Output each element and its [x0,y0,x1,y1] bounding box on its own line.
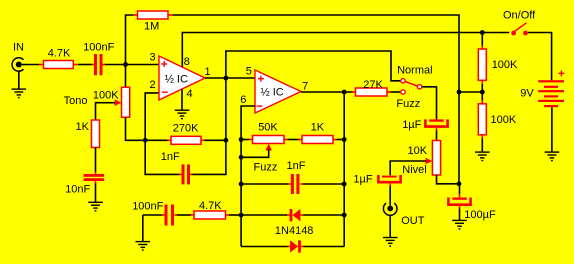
svg-text:8: 8 [184,56,190,68]
svg-text:Tono: Tono [64,95,88,107]
node V+ rail / divider top [480,30,485,35]
node feedback A (pin2/270K/1nF) [143,138,148,143]
capacitor 1nF (feedback) [241,160,344,194]
wire On/Off to battery [528,33,552,81]
svg-text:50K: 50K [258,121,278,133]
svg-text:27K: 27K [363,79,383,91]
wire 10K bottom to bias node [437,175,460,184]
wire 1nF loop left [145,140,179,174]
svg-text:IN: IN [13,42,24,54]
resistor 270K [145,123,226,145]
wire 1uF to OUT jack [389,186,391,206]
node 1K right [342,137,347,142]
wire 4.7K to C 100nF [78,64,92,66]
wire output U1 down to 270K [225,78,227,140]
wire 1K to 10nF [95,148,97,175]
svg-text:100K: 100K [491,114,517,126]
diode D1 1N4148 (cathode left) [241,209,344,237]
op-amp U1 (1/2 IC) [150,51,211,100]
resistor 27K [352,79,391,96]
node op-amp U1 output [224,76,229,81]
node 1nF right [342,182,347,187]
svg-text:On/Off: On/Off [503,10,536,22]
svg-text:10K: 10K [408,145,428,157]
resistor 4.7K (input) [39,48,78,69]
node 270K right [224,138,229,143]
svg-text:Normal: Normal [397,64,432,76]
capacitor 100uF [448,184,496,221]
svg-text:1µF: 1µF [402,119,421,131]
svg-text:OUT: OUT [401,215,425,227]
svg-text:4: 4 [187,88,193,100]
svg-text:2: 2 [150,79,156,91]
resistor 4.7K (bottom) [177,200,241,219]
wire 10K wiper to 1uF out [390,161,426,175]
wire pin 4 to ground [181,89,183,110]
svg-text:4.7K: 4.7K [48,48,71,60]
svg-text:5: 5 [246,66,252,78]
wire 1nF loop right [193,140,226,174]
svg-text:100K: 100K [492,59,518,71]
wire IN jack to ground [18,71,20,89]
node bias rail bottom [457,181,462,186]
potentiometer 50K Fuzz [241,121,287,173]
svg-text:3: 3 [150,51,156,63]
svg-text:270K: 270K [173,123,199,135]
svg-text:½ IC: ½ IC [165,73,188,85]
wire 100nF to op-amp pin 3 [105,64,160,66]
node input junction [123,62,128,67]
wire node A up to pin 2 [145,93,159,140]
svg-text:100µF: 100µF [464,209,496,221]
node 50K left [239,137,244,142]
svg-text:7: 7 [302,81,308,93]
node 1nF left [239,182,244,187]
svg-text:1µF: 1µF [353,173,372,185]
node bias rail mid [457,90,462,95]
potentiometer 100K Tono [64,87,130,117]
svg-text:Fuzz: Fuzz [396,98,420,110]
wire OUT jack to ground [389,215,391,237]
capacitor 100nF (bottom) [132,201,177,226]
capacitor 1uF (output coupling) [353,173,400,186]
svg-text:½ IC: ½ IC [261,86,284,98]
wire 1M to bias rail corner [173,15,460,93]
resistor 100K (lower divider) [478,92,517,152]
svg-text:1nF: 1nF [161,151,180,163]
ground (input jack) [12,89,27,98]
svg-text:1K: 1K [76,121,90,133]
svg-text:1K: 1K [311,122,325,134]
wire Tono pot bottom to feedback node [126,117,147,140]
battery 9V [520,70,564,107]
node op-amp U2 output [342,90,347,95]
wire U2 output down the right feedback rail [343,92,345,247]
wire node down to Tono pot [125,65,127,88]
svg-text:9V: 9V [520,88,534,100]
wire 1uF to 10K pot [436,130,438,141]
wire switch common to 1uF [422,87,436,120]
wire bias rail down [458,92,460,184]
svg-text:1N4148: 1N4148 [275,225,314,237]
node divider mid [480,90,485,95]
svg-text:Nivel: Nivel [402,164,426,176]
ground (100uF) [452,220,467,229]
wire 100nF bottom to ground [142,215,144,242]
wire node up to 1M [126,15,134,65]
wire divider mid to bias rail [459,91,482,93]
node 50K wiper junction [239,155,244,160]
ground (battery) [545,152,560,161]
node 4.7K right [239,213,244,218]
svg-text:10nF: 10nF [65,183,90,195]
capacitor 1uF (switch coupling) [402,119,447,131]
svg-text:100K: 100K [93,90,119,102]
capacitor 10nF [65,174,104,195]
wire battery to ground [551,107,553,152]
wire pin 8 to V+ rail [182,33,509,67]
wire op-amp U1 output to pin 5 [205,77,256,79]
wire 100uF to ground [459,209,461,221]
ground (lower divider) [475,152,490,161]
svg-text:100nF: 100nF [83,41,114,53]
ground (op-amp U1 pin 4) [175,110,190,119]
svg-text:100nF: 100nF [132,201,163,213]
capacitor C 1nF (across 270K) [161,151,193,184]
wire 50K to 1K [288,139,299,141]
op-amp U2 (1/2 IC) [240,66,308,113]
resistor 1M (feedback to bias rail) [133,11,173,32]
wire output U1 up to Normal contact [226,51,401,81]
wire 50K wiper to pin6 net [241,149,269,157]
ground (10nF) [88,202,103,211]
svg-text:1: 1 [205,66,211,78]
output jack OUT [383,203,424,227]
wire Tono wiper to 1K [96,103,115,121]
svg-text:Fuzz: Fuzz [254,161,278,173]
wire pin 6 feedback [241,106,255,247]
svg-text:1nF: 1nF [287,160,306,172]
node diode row right [342,213,347,218]
switch Normal/Fuzz [396,64,432,110]
diode D2 1N4148 (anode left) [241,240,344,252]
potentiometer 10K Nivel [402,141,440,176]
wire 27K to Fuzz contact [391,91,401,93]
resistor 100K (upper divider) [478,33,518,93]
svg-text:6: 6 [240,94,246,106]
svg-text:4.7K: 4.7K [199,200,222,212]
resistor 1K (tone network) [76,120,100,148]
switch On/Off [503,10,536,36]
wire jack to R 4.7K [22,64,40,66]
input jack IN [12,42,24,72]
ground (100nF) [136,242,151,251]
capacitor 100nF (input) [83,41,114,75]
ground (OUT jack) [383,238,398,247]
wire op-amp U2 output [301,91,353,93]
resistor 1K (U2 feedback) [299,122,345,144]
svg-text:1M: 1M [144,20,159,32]
wire 10nF to ground [95,181,97,202]
